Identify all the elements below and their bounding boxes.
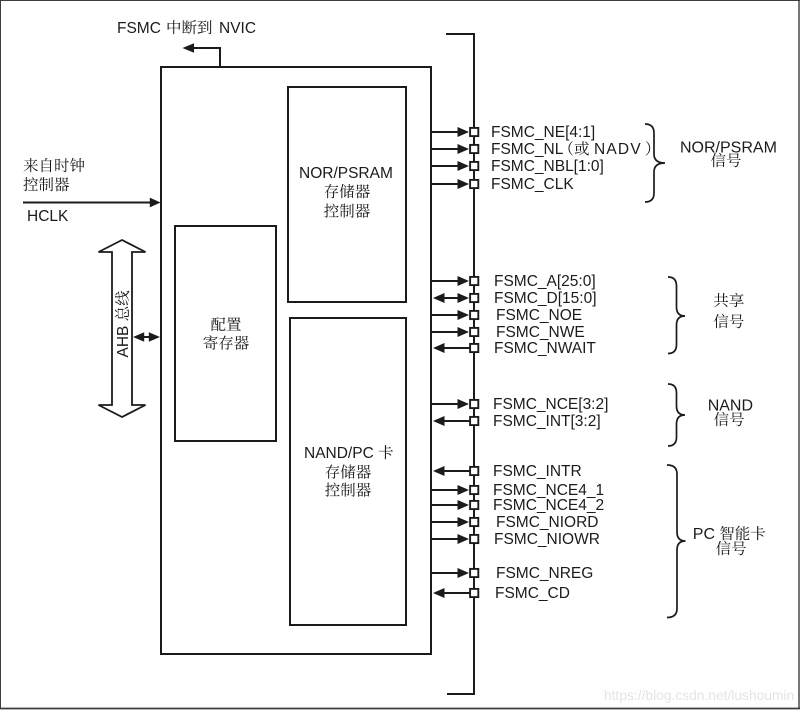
svg-text:PC: PC (693, 526, 715, 543)
svg-text:FSMC_NBL[1:0]: FSMC_NBL[1:0] (491, 158, 604, 175)
svg-text:FSMC_NWAIT: FSMC_NWAIT (494, 340, 596, 357)
svg-text:NADV: NADV (594, 141, 642, 158)
svg-text:FSMC_D[15:0]: FSMC_D[15:0] (494, 290, 597, 307)
svg-text:FSMC_NOE: FSMC_NOE (496, 307, 582, 324)
svg-text:NAND/PC: NAND/PC (304, 445, 374, 462)
svg-text:FSMC: FSMC (117, 20, 161, 37)
svg-text:FSMC_NIORD: FSMC_NIORD (496, 514, 598, 531)
svg-text:NAND: NAND (708, 398, 753, 415)
svg-text:NOR/PSRAM: NOR/PSRAM (299, 165, 393, 182)
svg-text:FSMC_NCE4_2: FSMC_NCE4_2 (493, 497, 604, 514)
svg-text:FSMC_NIOWR: FSMC_NIOWR (494, 531, 600, 548)
svg-text:FSMC_NREG: FSMC_NREG (496, 565, 593, 582)
svg-text:FSMC_CLK: FSMC_CLK (491, 176, 574, 193)
svg-text:FSMC_CD: FSMC_CD (495, 585, 570, 602)
svg-text:FSMC_NE[4:1]: FSMC_NE[4:1] (491, 124, 595, 141)
svg-text:FSMC_INTR: FSMC_INTR (493, 463, 582, 480)
svg-text:HCLK: HCLK (27, 208, 69, 225)
svg-text:NOR/PSRAM: NOR/PSRAM (680, 140, 777, 157)
svg-text:https://blog.csdn.net/lushoumi: https://blog.csdn.net/lushoumin (604, 688, 794, 703)
svg-text:FSMC_NCE[3:2]: FSMC_NCE[3:2] (493, 396, 608, 413)
svg-text:FSMC_INT[3:2]: FSMC_INT[3:2] (493, 413, 601, 430)
svg-text:FSMC_NWE: FSMC_NWE (496, 324, 585, 341)
svg-text:NVIC: NVIC (219, 20, 256, 37)
svg-text:FSMC_A[25:0]: FSMC_A[25:0] (494, 273, 596, 290)
svg-text:AHB: AHB (115, 326, 132, 358)
svg-text:FSMC_NL: FSMC_NL (491, 141, 564, 158)
